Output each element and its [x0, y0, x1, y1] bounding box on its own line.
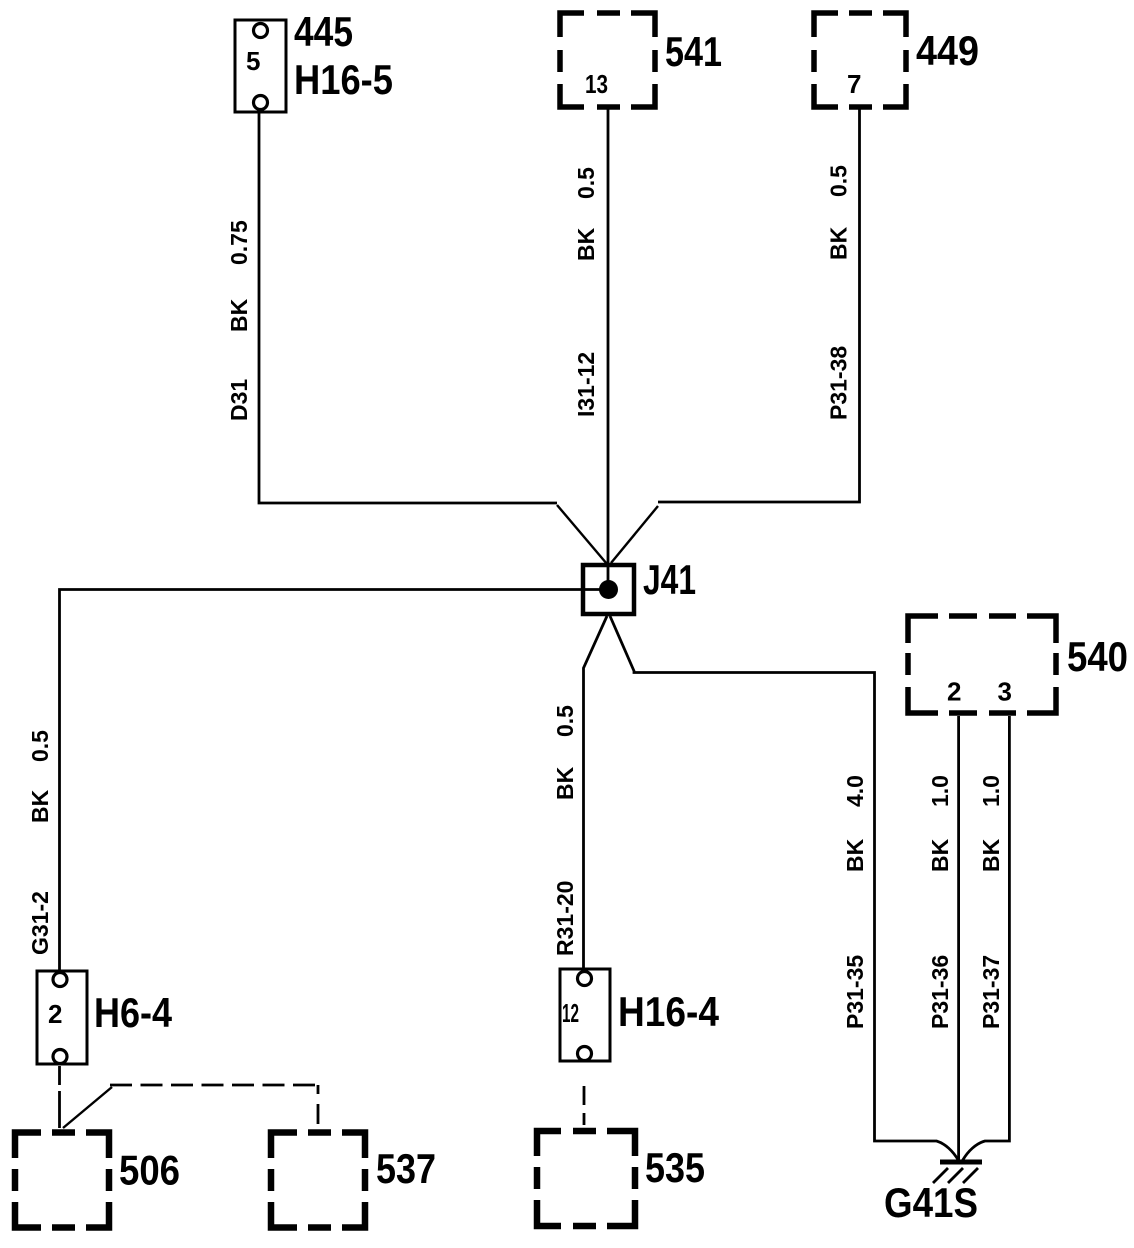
connector 540 (dashed box) [908, 616, 1056, 713]
dashed wire down into 537 [317, 1085, 320, 1124]
svg-text:I31-12: I31-12 [573, 352, 599, 417]
svg-text:3: 3 [998, 677, 1012, 707]
svg-text:1.0: 1.0 [978, 775, 1004, 807]
connector 449 (dashed box) [814, 13, 906, 107]
link wire 506 to 537 diagonal [63, 1087, 112, 1128]
svg-text:0.5: 0.5 [826, 165, 852, 197]
svg-text:13: 13 [585, 69, 608, 99]
dashed link wire to 537 horizontal [110, 1084, 318, 1087]
svg-text:12: 12 [562, 998, 579, 1028]
connector 537 (dashed box) [271, 1133, 365, 1228]
svg-text:BK: BK [226, 298, 252, 332]
svg-text:0.5: 0.5 [552, 705, 578, 737]
svg-text:BK: BK [842, 838, 868, 872]
svg-text:BK: BK [552, 766, 578, 800]
svg-text:H16-5: H16-5 [294, 56, 393, 103]
wire J41 to ground (down-right branch) [610, 616, 875, 1140]
connector 541 (dashed box) [560, 13, 655, 107]
svg-text:541: 541 [665, 28, 722, 75]
svg-text:1.0: 1.0 [927, 775, 953, 807]
svg-text:506: 506 [119, 1147, 180, 1194]
svg-text:G41S: G41S [884, 1179, 978, 1226]
svg-text:2: 2 [947, 677, 961, 707]
wire J41 to H6-4 (left branch) [60, 590, 609, 972]
svg-text:537: 537 [376, 1145, 436, 1192]
svg-text:P31-35: P31-35 [842, 955, 868, 1029]
wire 449 to J41 [658, 107, 860, 502]
svg-text:0.5: 0.5 [27, 730, 53, 762]
svg-text:540: 540 [1067, 633, 1128, 680]
wire 540 pin 3 to ground [963, 716, 1010, 1161]
svg-text:BK: BK [927, 838, 953, 872]
wire diagonal into J41 top-right [611, 506, 658, 563]
ground symbol G41S [933, 1162, 982, 1183]
svg-text:J41: J41 [643, 556, 696, 603]
connector H6-4 body [37, 971, 87, 1064]
svg-text:7: 7 [847, 69, 861, 99]
splice J41 [583, 565, 634, 614]
dashed wire H16-4 to 535 [583, 1086, 586, 1125]
svg-text:BK: BK [826, 226, 852, 260]
svg-text:P31-38: P31-38 [826, 346, 852, 420]
dashed wire H6-4 to 506 [58, 1066, 61, 1128]
wire 540 pin 2 to ground [957, 716, 960, 1161]
svg-text:449: 449 [916, 27, 979, 74]
svg-text:P31-36: P31-36 [927, 955, 953, 1029]
svg-text:G31-2: G31-2 [27, 891, 53, 955]
svg-text:0.75: 0.75 [226, 220, 252, 265]
svg-text:5: 5 [246, 46, 260, 76]
svg-text:R31-20: R31-20 [552, 881, 578, 956]
wire bend into ground [875, 1140, 959, 1161]
wire diagonal into J41 top-left [557, 505, 607, 564]
wire 445 to J41 [259, 112, 557, 503]
wire 541 to J41 [607, 107, 610, 589]
svg-text:445: 445 [294, 8, 353, 55]
svg-text:H6-4: H6-4 [94, 989, 173, 1036]
svg-text:0.5: 0.5 [573, 167, 599, 199]
svg-text:BK: BK [27, 789, 53, 823]
svg-text:BK: BK [573, 227, 599, 261]
connector 506 (dashed box) [15, 1133, 109, 1228]
wire J41 to H16-4 (down-left diagonal) [584, 616, 608, 969]
svg-text:535: 535 [645, 1144, 705, 1191]
svg-text:D31: D31 [226, 379, 252, 421]
connector 445 / H16-5 body [235, 20, 286, 112]
svg-text:2: 2 [48, 999, 62, 1029]
connector 535 (dashed box) [537, 1131, 635, 1226]
svg-text:H16-4: H16-4 [618, 988, 720, 1035]
svg-text:4.0: 4.0 [842, 775, 868, 807]
svg-text:BK: BK [978, 838, 1004, 872]
svg-text:P31-37: P31-37 [978, 955, 1004, 1029]
connector H16-4 body [560, 969, 610, 1061]
